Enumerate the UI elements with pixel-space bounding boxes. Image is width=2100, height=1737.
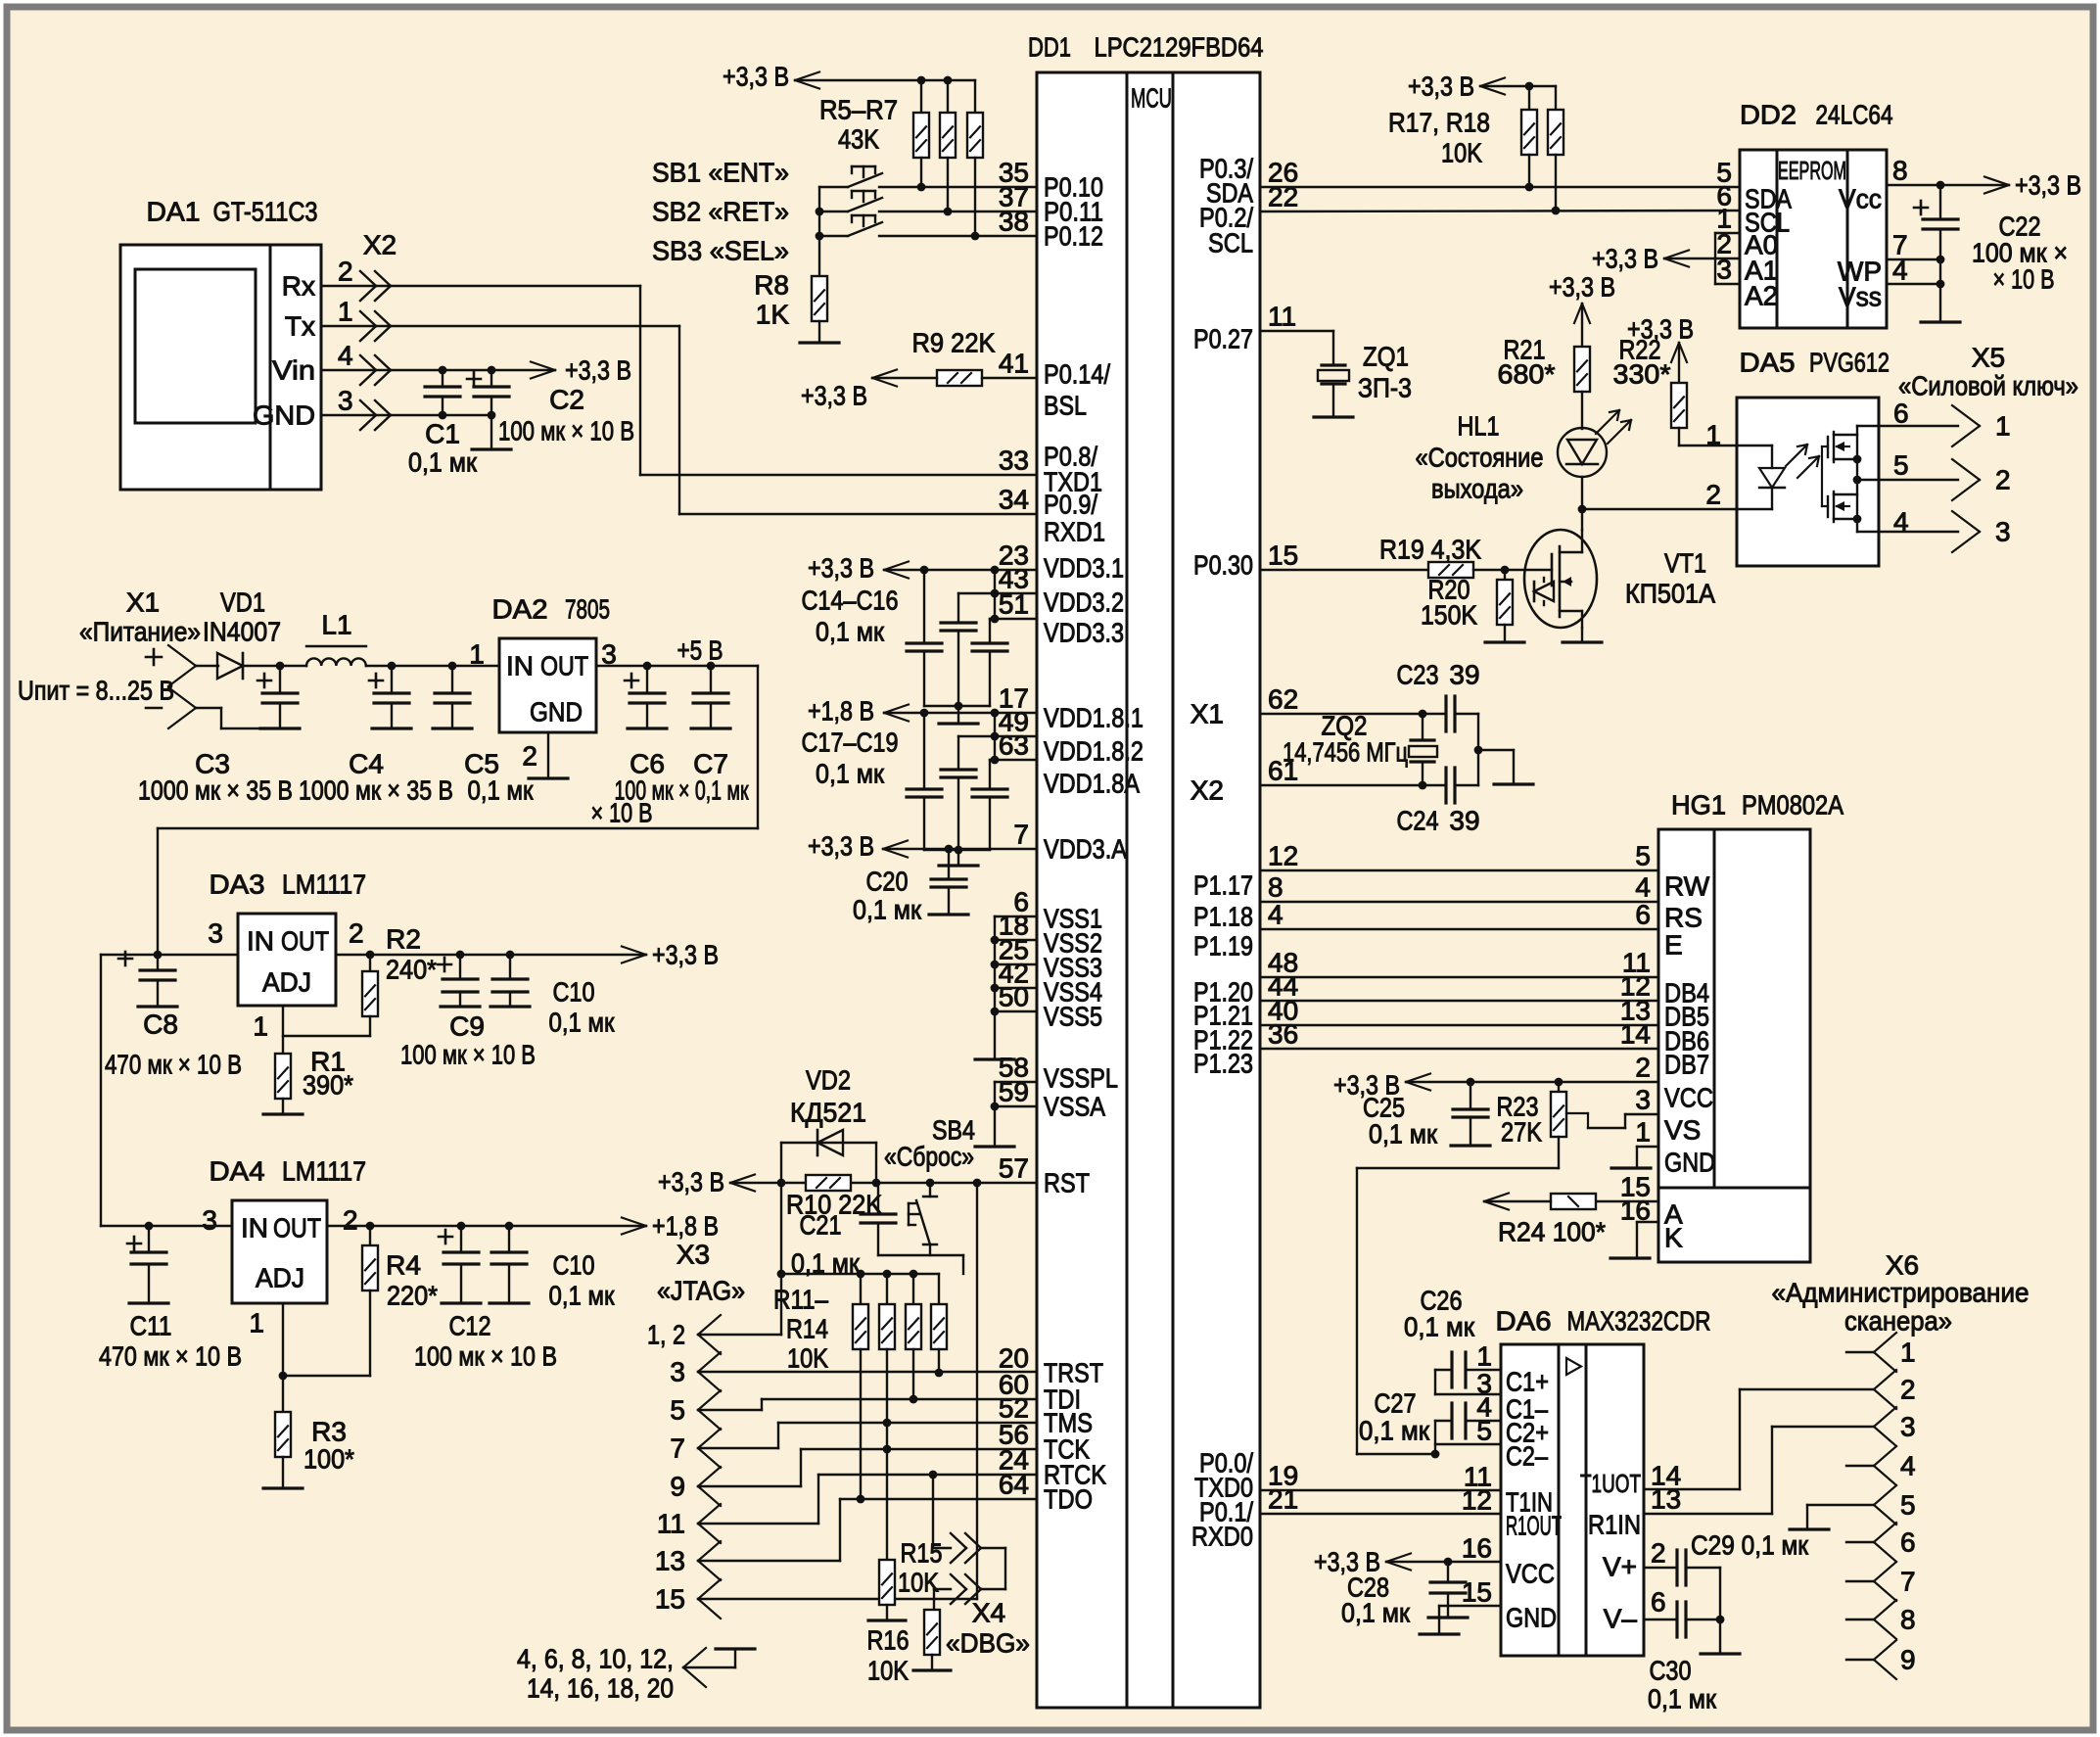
svg-text:4, 6, 8, 10, 12,: 4, 6, 8, 10, 12,: [517, 1644, 674, 1674]
svg-text:DD2: DD2: [1740, 100, 1797, 130]
svg-text:X1: X1: [126, 587, 160, 618]
svg-text:P1.18: P1.18: [1193, 902, 1253, 932]
svg-text:SB3 «SEL»: SB3 «SEL»: [652, 236, 789, 266]
svg-text:Vss: Vss: [1839, 282, 1882, 312]
svg-text:DA5: DA5: [1740, 348, 1796, 378]
svg-text:57: 57: [999, 1153, 1029, 1184]
svg-text:R19 4,3K: R19 4,3K: [1379, 535, 1481, 565]
svg-text:VDD1.8.2: VDD1.8.2: [1044, 736, 1143, 767]
svg-text:GND: GND: [530, 697, 583, 728]
svg-text:4: 4: [1635, 872, 1651, 903]
svg-text:C23: C23: [1397, 660, 1439, 690]
svg-text:«DBG»: «DBG»: [946, 1628, 1030, 1659]
svg-text:R4: R4: [386, 1250, 421, 1281]
svg-text:RST: RST: [1044, 1168, 1090, 1198]
svg-text:+1,8 В: +1,8 В: [652, 1211, 719, 1242]
svg-text:3: 3: [1635, 1085, 1651, 1115]
svg-text:50: 50: [999, 982, 1029, 1012]
svg-text:4: 4: [1268, 900, 1283, 930]
svg-text:VDD1.8.1: VDD1.8.1: [1044, 703, 1143, 733]
svg-text:R24 100*: R24 100*: [1498, 1217, 1606, 1247]
svg-text:+5 В: +5 В: [677, 635, 723, 666]
svg-text:3: 3: [202, 1205, 217, 1236]
svg-text:VSSA: VSSA: [1044, 1092, 1105, 1122]
svg-text:+1,8 В: +1,8 В: [808, 696, 874, 727]
svg-text:C1: C1: [425, 419, 460, 449]
svg-text:33: 33: [999, 446, 1029, 476]
svg-text:VD1: VD1: [220, 587, 265, 618]
svg-text:39: 39: [1449, 806, 1479, 836]
svg-text:14: 14: [1620, 1019, 1651, 1050]
svg-text:2: 2: [343, 1205, 358, 1236]
svg-text:SCL: SCL: [1208, 228, 1253, 258]
svg-text:R16: R16: [867, 1625, 910, 1656]
svg-text:12: 12: [1268, 841, 1298, 871]
svg-text:DD1: DD1: [1028, 32, 1071, 63]
svg-text:1: 1: [338, 297, 353, 327]
svg-text:+3,3 В: +3,3 В: [1592, 244, 1658, 274]
svg-text:C10: C10: [553, 977, 595, 1008]
svg-text:IN4007: IN4007: [203, 617, 281, 647]
svg-text:8: 8: [1892, 156, 1908, 186]
svg-text:0,1 мк: 0,1 мк: [1369, 1119, 1438, 1150]
svg-text:R5–R7: R5–R7: [819, 95, 898, 125]
svg-text:TDO: TDO: [1044, 1484, 1093, 1515]
svg-text:11: 11: [1268, 302, 1296, 332]
svg-text:HG1: HG1: [1671, 790, 1726, 821]
svg-text:1: 1: [249, 1308, 264, 1338]
svg-text:VCC: VCC: [1664, 1083, 1713, 1113]
svg-text:330*: 330*: [1613, 359, 1671, 390]
svg-text:MAX3232CDR: MAX3232CDR: [1567, 1306, 1711, 1337]
svg-text:«Силовой ключ»: «Силовой ключ»: [1898, 371, 2078, 401]
svg-text:C2–: C2–: [1506, 1441, 1548, 1472]
svg-text:470 мк × 10 В: 470 мк × 10 В: [99, 1341, 242, 1372]
svg-text:RW: RW: [1664, 871, 1710, 902]
svg-text:0,1 мк: 0,1 мк: [853, 895, 922, 925]
svg-text:7: 7: [670, 1433, 685, 1464]
svg-text:HL1: HL1: [1458, 411, 1500, 442]
svg-text:3: 3: [338, 386, 353, 416]
svg-text:RXD0: RXD0: [1191, 1522, 1253, 1552]
svg-text:R3: R3: [311, 1417, 347, 1447]
svg-text:0,1 мк: 0,1 мк: [1359, 1416, 1430, 1446]
svg-text:P0.14/: P0.14/: [1044, 359, 1110, 390]
svg-text:0,1 мк: 0,1 мк: [1404, 1312, 1475, 1342]
svg-text:C21: C21: [800, 1210, 842, 1241]
svg-text:680*: 680*: [1498, 359, 1556, 390]
svg-text:C2: C2: [549, 385, 584, 415]
svg-text:A2: A2: [1745, 281, 1778, 311]
svg-text:10K: 10K: [867, 1656, 909, 1686]
svg-text:6: 6: [1651, 1587, 1666, 1618]
svg-text:0,1 мк: 0,1 мк: [816, 759, 885, 789]
svg-text:X6: X6: [1886, 1250, 1919, 1281]
svg-text:ADJ: ADJ: [262, 967, 311, 998]
svg-text:«Питание»: «Питание»: [79, 617, 201, 647]
svg-text:VDD3.2: VDD3.2: [1044, 587, 1124, 618]
svg-text:100*: 100*: [303, 1444, 354, 1475]
svg-text:RS: RS: [1664, 903, 1703, 933]
svg-text:OUT: OUT: [281, 926, 329, 957]
svg-text:1000 мк × 35 В: 1000 мк × 35 В: [299, 775, 453, 806]
svg-text:P1.23: P1.23: [1193, 1049, 1253, 1079]
svg-text:2: 2: [1900, 1375, 1916, 1405]
svg-text:43K: 43K: [838, 124, 879, 155]
svg-text:V–: V–: [1604, 1604, 1638, 1634]
svg-text:R9 22K: R9 22K: [912, 328, 996, 358]
svg-text:C17–C19: C17–C19: [802, 728, 899, 758]
svg-text:SB2 «RET»: SB2 «RET»: [652, 197, 789, 227]
svg-text:1: 1: [253, 1011, 268, 1042]
svg-text:C12: C12: [449, 1311, 491, 1341]
svg-text:8: 8: [1268, 872, 1283, 903]
svg-text:X2: X2: [1190, 775, 1224, 806]
svg-text:VDD1.8A: VDD1.8A: [1044, 769, 1140, 799]
svg-text:24LC64: 24LC64: [1816, 100, 1893, 130]
svg-text:6: 6: [1893, 399, 1909, 429]
svg-text:100 мк × 10 В: 100 мк × 10 В: [414, 1341, 557, 1372]
svg-text:4: 4: [1900, 1451, 1916, 1481]
svg-text:+3,3 В: +3,3 В: [1549, 272, 1615, 303]
svg-text:IN: IN: [247, 926, 274, 957]
svg-text:КД521: КД521: [790, 1098, 866, 1128]
svg-text:Uпит = 8...25 В: Uпит = 8...25 В: [18, 676, 174, 706]
svg-text:4: 4: [1893, 507, 1909, 538]
svg-text:P0.12: P0.12: [1044, 221, 1103, 252]
svg-text:3: 3: [1900, 1412, 1916, 1442]
svg-text:P1.17: P1.17: [1193, 870, 1253, 901]
svg-text:BSL: BSL: [1044, 391, 1087, 421]
svg-text:R15: R15: [901, 1538, 943, 1569]
svg-text:5: 5: [1900, 1490, 1916, 1521]
svg-text:+3,3 В: +3,3 В: [658, 1167, 724, 1197]
svg-text:0,1 мк: 0,1 мк: [468, 775, 535, 806]
svg-text:× 10 В: × 10 В: [591, 798, 653, 828]
svg-text:C20: C20: [866, 867, 909, 897]
svg-text:1: 1: [1900, 1338, 1916, 1368]
svg-text:C24: C24: [1397, 806, 1439, 836]
svg-text:P1.19: P1.19: [1193, 931, 1253, 962]
svg-text:1: 1: [469, 639, 485, 670]
svg-text:1, 2: 1, 2: [647, 1320, 685, 1350]
svg-text:6: 6: [1635, 900, 1651, 930]
svg-text:3: 3: [1995, 517, 2011, 547]
svg-text:15: 15: [655, 1584, 685, 1615]
svg-text:MCU: MCU: [1131, 83, 1172, 114]
svg-text:27K: 27K: [1501, 1117, 1542, 1148]
svg-text:DA1: DA1: [147, 197, 201, 227]
svg-text:7805: 7805: [565, 594, 610, 625]
svg-text:C14–C16: C14–C16: [802, 586, 899, 616]
svg-text:X1: X1: [1190, 699, 1224, 729]
svg-text:6: 6: [1900, 1527, 1916, 1558]
svg-text:DA6: DA6: [1496, 1306, 1552, 1337]
svg-text:«Состояние: «Состояние: [1416, 443, 1544, 473]
svg-text:«Сброс»: «Сброс»: [884, 1142, 974, 1172]
svg-text:7: 7: [1900, 1567, 1916, 1597]
svg-text:220*: 220*: [387, 1281, 438, 1311]
svg-text:VDD3.1: VDD3.1: [1044, 553, 1124, 584]
svg-text:+3,3 В: +3,3 В: [808, 553, 874, 584]
svg-text:OUT: OUT: [273, 1213, 321, 1244]
svg-text:K: K: [1664, 1223, 1683, 1253]
svg-text:C1+: C1+: [1506, 1367, 1549, 1397]
svg-text:VDD3.3: VDD3.3: [1044, 618, 1124, 648]
svg-text:2: 2: [522, 741, 537, 772]
svg-text:PM0802A: PM0802A: [1742, 790, 1843, 821]
svg-text:C30: C30: [1650, 1656, 1692, 1686]
svg-text:63: 63: [999, 730, 1029, 761]
svg-text:34: 34: [999, 485, 1029, 515]
svg-text:2: 2: [1635, 1053, 1651, 1083]
svg-text:9: 9: [670, 1472, 685, 1502]
svg-text:41: 41: [999, 349, 1029, 379]
svg-text:«JTAG»: «JTAG»: [657, 1276, 745, 1306]
svg-text:ЗП-3: ЗП-3: [1358, 373, 1412, 403]
svg-text:X4: X4: [972, 1598, 1005, 1628]
svg-text:+3,3 В: +3,3 В: [723, 62, 789, 92]
svg-text:100 мк × 10 В: 100 мк × 10 В: [498, 416, 634, 446]
svg-text:13: 13: [655, 1546, 685, 1576]
svg-text:2: 2: [338, 257, 353, 287]
svg-text:Vin: Vin: [272, 355, 315, 386]
svg-text:SB1 «ENT»: SB1 «ENT»: [652, 158, 789, 188]
svg-text:+3,3 В: +3,3 В: [565, 355, 631, 386]
svg-text:X3: X3: [677, 1240, 710, 1270]
svg-text:+3,3 В: +3,3 В: [652, 940, 719, 970]
svg-text:+3,3 В: +3,3 В: [808, 831, 874, 862]
svg-text:1: 1: [1476, 1341, 1492, 1372]
svg-text:GND: GND: [1506, 1603, 1557, 1633]
svg-text:14,7456 МГц: 14,7456 МГц: [1283, 737, 1408, 768]
svg-text:× 10 В: × 10 В: [1993, 264, 2055, 295]
svg-text:8: 8: [1900, 1605, 1916, 1635]
svg-text:C27: C27: [1375, 1388, 1417, 1419]
svg-text:V+: V+: [1603, 1552, 1637, 1582]
svg-text:VCC: VCC: [1506, 1559, 1555, 1589]
svg-text:R17, R18: R17, R18: [1388, 108, 1490, 138]
svg-text:36: 36: [1268, 1019, 1298, 1050]
svg-text:2: 2: [349, 918, 364, 949]
svg-text:IN: IN: [241, 1213, 268, 1244]
svg-text:C29 0,1 мк: C29 0,1 мк: [1691, 1530, 1809, 1561]
svg-text:DB7: DB7: [1664, 1050, 1709, 1080]
svg-text:C10: C10: [553, 1250, 595, 1281]
svg-text:выхода»: выхода»: [1431, 474, 1523, 504]
svg-text:VD2: VD2: [806, 1065, 851, 1096]
svg-text:10K: 10K: [787, 1343, 828, 1374]
svg-text:2: 2: [1705, 480, 1721, 510]
svg-text:5: 5: [670, 1395, 685, 1426]
svg-text:15: 15: [1268, 540, 1298, 571]
svg-text:21: 21: [1268, 1484, 1298, 1515]
svg-text:100 мк × 10 В: 100 мк × 10 В: [400, 1040, 536, 1070]
svg-text:DA4: DA4: [210, 1156, 265, 1187]
svg-text:0,1 мк: 0,1 мк: [549, 1281, 616, 1311]
svg-text:1000 мк × 35 В: 1000 мк × 35 В: [138, 775, 293, 806]
svg-text:RXD1: RXD1: [1044, 517, 1105, 547]
svg-text:4: 4: [338, 341, 353, 371]
svg-text:PVG612: PVG612: [1809, 348, 1890, 378]
svg-text:R2: R2: [386, 924, 421, 955]
svg-text:LM1117: LM1117: [282, 869, 366, 900]
svg-text:5: 5: [1635, 841, 1651, 871]
svg-text:390*: 390*: [303, 1070, 353, 1101]
svg-text:C8: C8: [143, 1009, 178, 1040]
svg-text:C9: C9: [449, 1011, 485, 1042]
svg-text:VSS5: VSS5: [1044, 1002, 1102, 1032]
svg-text:OUT: OUT: [540, 651, 588, 681]
svg-text:+3,3 В: +3,3 В: [2015, 170, 2081, 201]
svg-text:0,1 мк: 0,1 мк: [1648, 1684, 1717, 1714]
svg-text:R8: R8: [754, 270, 789, 301]
svg-text:ADJ: ADJ: [256, 1263, 304, 1293]
svg-text:R11–: R11–: [773, 1285, 828, 1315]
svg-text:0,1 мк: 0,1 мк: [816, 617, 885, 647]
svg-text:X5: X5: [1972, 343, 2005, 373]
svg-text:P0.27: P0.27: [1193, 324, 1253, 354]
svg-text:VDD3.A: VDD3.A: [1044, 834, 1127, 865]
svg-text:P0.9/: P0.9/: [1044, 490, 1097, 520]
svg-text:КП501А: КП501А: [1625, 579, 1715, 609]
svg-text:P0.30: P0.30: [1193, 550, 1253, 581]
svg-text:Tx: Tx: [285, 311, 315, 342]
svg-text:7: 7: [1013, 820, 1029, 850]
svg-text:5: 5: [1893, 450, 1909, 481]
svg-text:C11: C11: [130, 1311, 172, 1341]
svg-text:3: 3: [670, 1357, 685, 1387]
svg-text:1: 1: [1635, 1117, 1651, 1148]
svg-text:L1: L1: [321, 610, 351, 640]
svg-text:9: 9: [1900, 1645, 1916, 1675]
svg-text:GND: GND: [253, 400, 315, 431]
svg-text:10K: 10K: [1441, 138, 1482, 168]
svg-text:39: 39: [1449, 660, 1479, 690]
svg-text:1: 1: [1705, 420, 1721, 450]
svg-text:+3,3 В: +3,3 В: [801, 381, 867, 411]
svg-text:VT1: VT1: [1664, 548, 1706, 579]
svg-text:GND: GND: [1664, 1148, 1715, 1178]
svg-text:62: 62: [1268, 684, 1298, 715]
svg-text:150K: 150K: [1421, 600, 1477, 631]
svg-text:VSSPL: VSSPL: [1044, 1063, 1118, 1094]
svg-text:14, 16, 18, 20: 14, 16, 18, 20: [527, 1673, 674, 1704]
svg-text:«Администрирование: «Администрирование: [1772, 1278, 2030, 1308]
svg-text:X2: X2: [363, 230, 397, 260]
svg-text:Vcc: Vcc: [1839, 184, 1882, 214]
svg-text:VS: VS: [1664, 1115, 1701, 1146]
svg-text:LM1117: LM1117: [282, 1156, 366, 1187]
svg-text:240*: 240*: [386, 955, 437, 985]
svg-text:1: 1: [1995, 411, 2011, 442]
svg-text:EEPROM: EEPROM: [1778, 156, 1846, 185]
svg-text:IN: IN: [506, 651, 534, 681]
svg-text:ZQ1: ZQ1: [1363, 342, 1409, 372]
svg-text:T1UOT: T1UOT: [1580, 1469, 1641, 1498]
svg-text:1K: 1K: [756, 300, 790, 330]
svg-text:470 мк × 10 В: 470 мк × 10 В: [105, 1050, 242, 1080]
svg-text:R1OUT: R1OUT: [1506, 1511, 1562, 1541]
svg-text:10K: 10K: [898, 1568, 939, 1598]
svg-text:0,1 мк: 0,1 мк: [408, 447, 478, 478]
svg-text:R14: R14: [786, 1314, 828, 1344]
svg-text:11: 11: [657, 1509, 685, 1539]
svg-text:3: 3: [208, 918, 223, 949]
svg-text:E: E: [1664, 930, 1683, 961]
svg-text:DA2: DA2: [492, 594, 548, 625]
svg-text:GT-511C3: GT-511C3: [213, 197, 318, 227]
svg-text:сканера»: сканера»: [1844, 1306, 1952, 1337]
svg-text:0,1 мк: 0,1 мк: [549, 1008, 616, 1038]
svg-text:2: 2: [1651, 1538, 1666, 1569]
svg-text:Rx: Rx: [282, 271, 315, 302]
svg-text:R1IN: R1IN: [1588, 1510, 1641, 1540]
svg-text:DA3: DA3: [210, 869, 265, 900]
svg-text:LPC2129FBD64: LPC2129FBD64: [1095, 32, 1264, 63]
svg-text:+3,3 В: +3,3 В: [1408, 71, 1474, 102]
svg-text:2: 2: [1995, 465, 2011, 495]
svg-text:16: 16: [1462, 1533, 1492, 1564]
svg-text:0,1 мк: 0,1 мк: [1341, 1598, 1411, 1628]
